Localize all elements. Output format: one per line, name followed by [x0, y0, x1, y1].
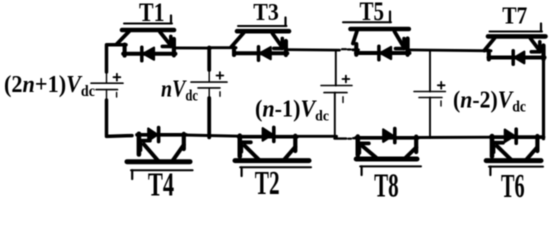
transistor T7 [484, 2, 545, 64]
wire left branch vertical [107, 45, 127, 72]
svg-text:(2n+1)Vdc: (2n+1)Vdc [4, 71, 95, 100]
svg-text:(n-1)Vdc: (n-1)Vdc [255, 97, 329, 125]
wire T5 to T7 [408, 49, 491, 53]
wire dash to T8 [353, 137, 358, 139]
svg-text:T7: T7 [502, 2, 527, 29]
wire battery (n-2)Vdc upper vertical [429, 50, 431, 91]
svg-text:T3: T3 [253, 0, 278, 26]
svg-text:T6: T6 [501, 168, 525, 200]
label (n-2)Vdc [453, 87, 526, 116]
transistor T2 [235, 127, 311, 202]
label (2n+1)Vdc [4, 71, 95, 100]
wire battery (n-1)Vdc lower vertical [334, 93, 336, 139]
wire T8 to T6 [416, 136, 493, 139]
battery source nVdc B2 [191, 70, 227, 98]
label nVdc [161, 76, 198, 105]
wire T1 to battery nVdc [174, 46, 211, 49]
battery source (2n+1)Vdc B1 [91, 72, 123, 100]
wire left branch vertical lower [107, 100, 133, 136]
svg-text:T8: T8 [374, 168, 399, 201]
dashed continuation bottom wire [348, 138, 351, 140]
wire battery (n-1)Vdc upper vertical [335, 50, 337, 86]
battery source (n-1)Vdc B3 [321, 76, 352, 103]
svg-text:(n-2)Vdc: (n-2)Vdc [453, 87, 526, 116]
label (n-1)Vdc [255, 97, 329, 125]
transistor T1 [117, 0, 176, 61]
wire battery (n-1)Vdc bottom to T8 [335, 137, 347, 139]
wire T5 left stub [353, 48, 359, 51]
wire T4 top path [137, 133, 186, 137]
wire right edge vertical T7 to T6 [542, 58, 545, 139]
wire T8 top path [356, 136, 418, 140]
wire battery nVdc lower vertical [207, 98, 211, 137]
wire T2 top path [239, 135, 298, 139]
dashed continuation top wire [342, 48, 351, 50]
transistor T8 [356, 129, 421, 205]
transistor T6 [486, 129, 543, 205]
wire T3 to continuation dash [286, 48, 340, 51]
svg-text:nVdc: nVdc [161, 76, 198, 105]
wire battery nVdc upper vertical [207, 48, 211, 71]
transistor T4 [127, 128, 193, 204]
wire T2 to battery (n-1)Vdc bottom [295, 135, 337, 138]
wire battery (n-2)Vdc lower vertical [429, 98, 431, 139]
svg-text:T4: T4 [148, 167, 174, 201]
transistor T5 [343, 0, 409, 60]
wire T6 top path [491, 135, 544, 139]
battery source (n-2)Vdc B4 [414, 82, 445, 106]
wire battery nVdc to T3 [208, 46, 236, 49]
wire T4 to T2 [184, 135, 240, 136]
svg-text:T2: T2 [255, 165, 280, 200]
transistor T3 [231, 0, 289, 60]
